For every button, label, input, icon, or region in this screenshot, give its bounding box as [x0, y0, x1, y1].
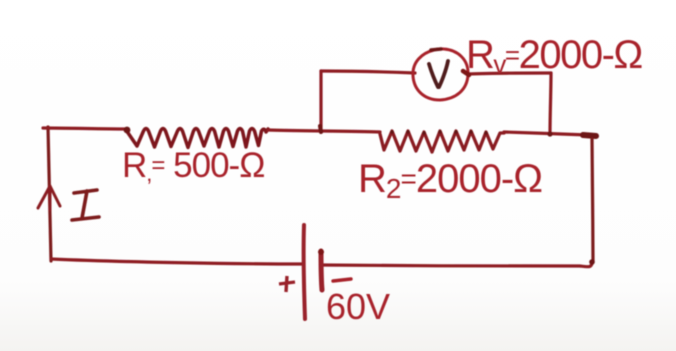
- wire: voltmeter branch top-left horizontal: [321, 71, 415, 73]
- svg-text:R2=2000-Ω: R2=2000-Ω: [358, 157, 542, 204]
- svg-text:Rv=2000-Ω: Rv=2000-Ω: [466, 33, 642, 79]
- battery B1 negative plate (short): [321, 251, 322, 290]
- pen dot at bottom-right corner: [589, 259, 595, 265]
- wire: bottom right segment from battery: [322, 262, 592, 267]
- wire: top-left horizontal segment: [43, 128, 126, 129]
- pen blob at R1 start: [124, 127, 131, 134]
- wire: voltmeter branch top-right horizontal: [468, 73, 551, 74]
- voltmeter circle pen overlap tick: [463, 71, 469, 75]
- wire: top-right horizontal segment: [504, 132, 588, 135]
- junction dot at voltmeter right vertical and top wire: [547, 131, 552, 136]
- wire: between R1 and R2 (node to voltmeter): [268, 130, 380, 132]
- wire: voltmeter branch left vertical: [319, 71, 322, 129]
- pen blob at negative plate top: [318, 249, 324, 255]
- minus sign of battery: [333, 279, 351, 281]
- voltmeter circle top tick: [431, 49, 441, 50]
- wire: bottom left segment to battery: [51, 259, 303, 264]
- junction node between R1 and R2: [320, 126, 321, 132]
- svg-text:R,= 500-Ω: R,= 500-Ω: [122, 146, 264, 186]
- resistor R1: [126, 129, 268, 148]
- voltmeter U1 circle: [413, 49, 468, 100]
- voltmeter letter V strokes: [429, 61, 448, 87]
- svg-text:60V: 60V: [326, 286, 390, 327]
- pen dots on R2 peaks: [390, 130, 487, 134]
- wire: voltmeter branch right vertical: [550, 73, 551, 134]
- wire: left vertical branch: [48, 127, 51, 261]
- resistor R2: [380, 131, 504, 152]
- wire: right vertical branch: [592, 139, 593, 261]
- current arrow I on left wire: [38, 186, 60, 210]
- battery plus sign (drawn): [279, 276, 295, 292]
- letter I label strokes: [72, 190, 99, 220]
- battery B1 positive plate (long): [304, 225, 305, 319]
- junction blob top-right corner: [583, 135, 596, 136]
